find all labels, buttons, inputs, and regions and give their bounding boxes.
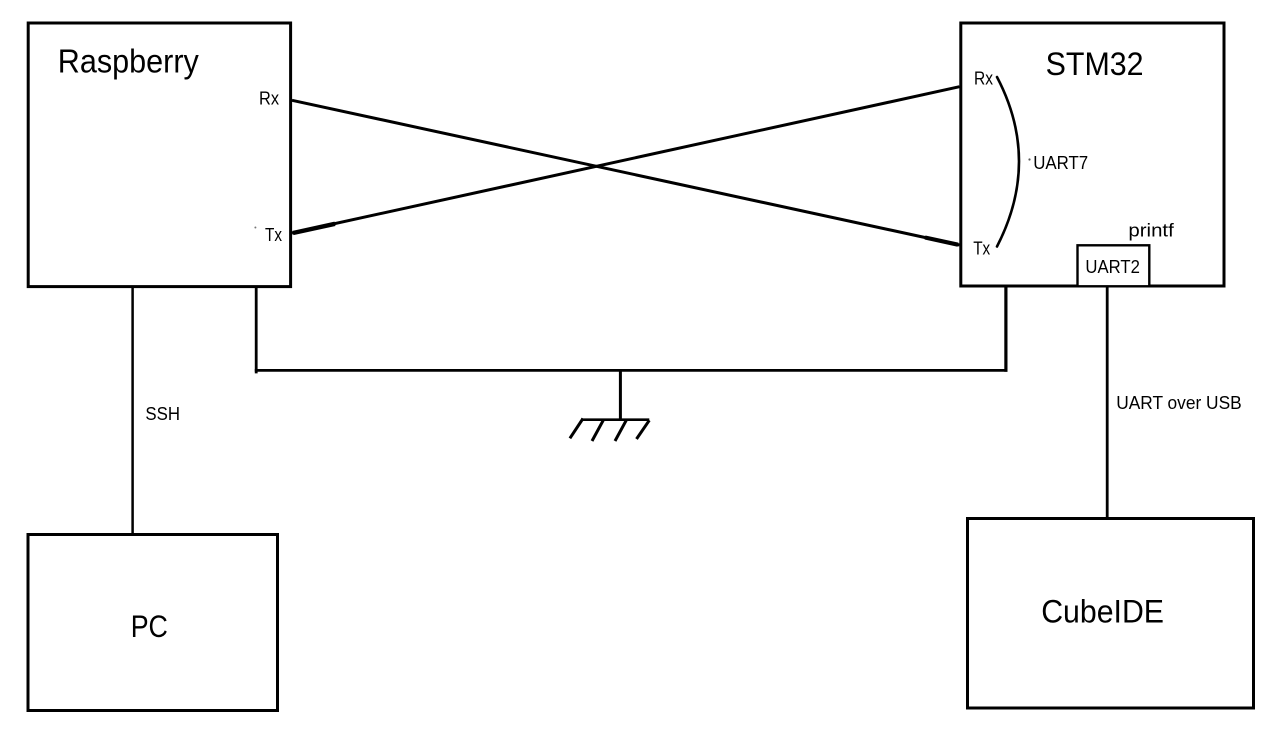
svg-text:UART7: UART7	[1033, 152, 1088, 173]
svg-text:Raspberry: Raspberry	[58, 43, 199, 80]
svg-text:STM32: STM32	[1046, 46, 1144, 82]
block UART2 (sub-box on STM32)	[1078, 245, 1150, 286]
wire overlap lump near STM32.Tx wire	[925, 238, 958, 245]
svg-text:Tx: Tx	[973, 239, 990, 259]
wire Raspberry.Rx to STM32.Tx	[292, 100, 960, 245]
wire SSH (Raspberry to PC)	[131, 287, 134, 536]
wire UART over USB (UART2 to CubeIDE)	[1106, 286, 1109, 519]
svg-text:PC: PC	[131, 608, 168, 644]
svg-text:Rx: Rx	[259, 88, 279, 108]
wire GND vertical from Raspberry	[255, 287, 258, 374]
svg-text:printf: printf	[1128, 220, 1174, 241]
wire GND horizontal bus	[255, 369, 1008, 372]
stray dot near Raspberry Tx	[254, 227, 256, 229]
block STM32 (box)	[961, 23, 1224, 286]
wire Raspberry.Tx to STM32.Rx	[292, 87, 960, 233]
brace arc for UART7 pins	[997, 77, 1019, 247]
svg-text:SSH: SSH	[145, 404, 180, 424]
svg-text:Tx: Tx	[265, 225, 282, 245]
svg-text:UART over USB: UART over USB	[1116, 393, 1242, 413]
wire GND vertical from STM32	[1004, 286, 1007, 372]
svg-text:CubeIDE: CubeIDE	[1041, 593, 1164, 629]
ground symbol	[570, 419, 649, 442]
block CubeIDE (box)	[968, 519, 1254, 709]
svg-text:Rx: Rx	[974, 68, 993, 88]
wire GND stub to ground symbol	[619, 370, 622, 420]
block Raspberry (box)	[28, 23, 290, 287]
stray dot near UART7	[1028, 158, 1030, 160]
wire overlap lump on Raspberry.Tx wire	[293, 224, 335, 233]
svg-text:UART2: UART2	[1085, 256, 1140, 277]
block PC (box)	[28, 535, 278, 711]
